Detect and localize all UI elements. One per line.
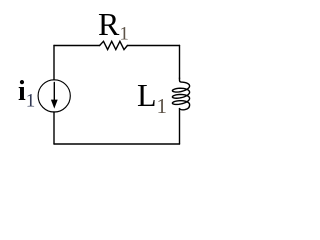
wire: top side, right of resistor R1 [127, 45, 179, 47]
current source i1 [38, 80, 70, 112]
label i1 [18, 76, 35, 113]
wire: top side, left of resistor R1 [54, 45, 100, 47]
resistor R1 [100, 41, 128, 49]
wire: bottom side [54, 143, 180, 145]
wire: right side, above inductor L1 [179, 46, 181, 79]
inductor L1 [172, 78, 189, 110]
wire: left side, above current source [53, 46, 55, 80]
wire: left side, below current source [53, 112, 55, 144]
wire: right side, below inductor L1 [179, 109, 181, 144]
label L1 [137, 77, 167, 119]
label R1 [98, 6, 129, 46]
